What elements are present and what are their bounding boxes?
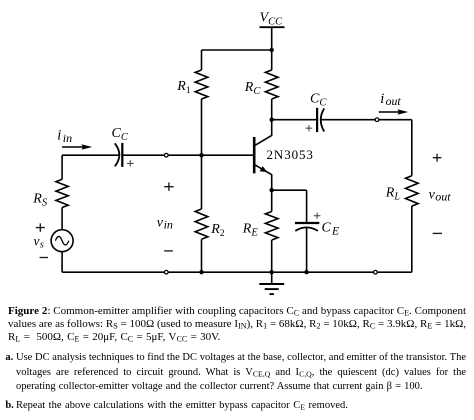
wire CE top lead <box>306 190 308 222</box>
capacitor CC input straight plate <box>121 143 123 167</box>
source vs sine wave <box>55 236 68 245</box>
junction node collector <box>270 118 274 122</box>
wire input left segment <box>62 154 119 156</box>
label CC output plus <box>306 125 313 131</box>
transistor collector lead <box>255 120 271 146</box>
wire output row right <box>320 119 411 121</box>
label vin plus <box>164 183 173 191</box>
wire R2 top lead <box>201 155 203 209</box>
wire emitter row <box>272 189 307 191</box>
wire R2 bottom lead <box>201 239 203 272</box>
wire RC bottom lead to collector node <box>271 99 273 120</box>
capacitor CE straight plate <box>295 222 319 224</box>
capacitor CC input curved plate <box>115 143 120 166</box>
junction node ground <box>270 270 274 274</box>
junction node emitter <box>270 188 274 192</box>
resistor RC <box>265 70 278 99</box>
label vs minus <box>40 257 48 259</box>
wire RL bottom lead <box>411 206 413 272</box>
arrow i_out head <box>397 109 408 115</box>
ground bar 3 <box>270 293 274 295</box>
open node vout top <box>375 118 379 122</box>
transistor emitter lead <box>255 165 271 190</box>
wire source column top <box>61 155 63 179</box>
wire RE top lead <box>271 190 273 211</box>
wire bottom rail <box>62 271 412 273</box>
wire RL top lead <box>411 120 413 176</box>
wire base segment <box>122 154 253 156</box>
wire R1 bottom lead <box>201 99 203 155</box>
resistor R1 <box>195 70 208 99</box>
resistor R2 <box>195 209 208 239</box>
capacitor CC output straight plate <box>316 108 318 132</box>
wire Vcc stub <box>271 27 273 50</box>
junction node R2 bottom <box>199 270 203 274</box>
transistor emitter arrowhead <box>260 166 268 172</box>
label vs plus <box>36 223 45 231</box>
wire R1 top lead <box>201 50 203 70</box>
label vout plus <box>433 154 442 162</box>
junction node at Vcc rail <box>270 48 274 52</box>
wire output row left <box>272 119 317 121</box>
capacitor CE curved plate <box>295 227 318 231</box>
source vs circle <box>51 230 73 252</box>
open node vout bottom <box>374 270 378 274</box>
junction node base <box>199 153 203 157</box>
Vcc supply terminal bar <box>260 26 285 28</box>
wire RC top lead <box>271 50 273 70</box>
arrow i_in shaft <box>62 146 85 148</box>
label vin minus <box>164 250 173 252</box>
ground bar 2 <box>265 288 279 290</box>
resistor RE <box>265 212 278 241</box>
capacitor CC output curved plate <box>321 108 325 131</box>
transistor Q1 2N3053 base bar <box>253 137 256 173</box>
wire RS to source <box>61 208 63 230</box>
label vout minus <box>433 232 442 234</box>
label CC input plus <box>127 160 134 166</box>
ground bar 1 <box>259 283 284 285</box>
resistor RS <box>56 179 68 207</box>
arrow i_out shaft <box>379 111 401 113</box>
open node vin top <box>164 153 168 157</box>
arrow i_in head <box>81 144 92 150</box>
wire CE bottom lead <box>306 227 308 272</box>
wire source to bottom rail <box>61 252 63 273</box>
junction node CE bottom <box>304 270 308 274</box>
resistor RL <box>406 176 419 206</box>
ground stub <box>271 272 273 284</box>
wire top rail <box>202 49 272 51</box>
open node vin bottom <box>164 270 168 274</box>
wire RE bottom lead <box>271 240 273 272</box>
label CE plus <box>314 213 321 219</box>
